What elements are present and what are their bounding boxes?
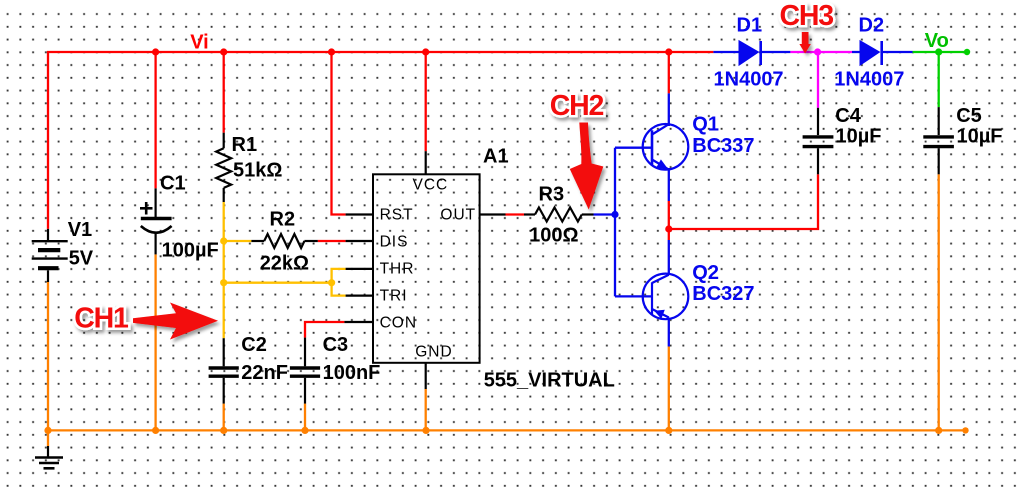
svg-text:1N4007: 1N4007 xyxy=(714,69,784,91)
svg-text:RST: RST xyxy=(380,206,414,223)
svg-text:C5: C5 xyxy=(956,105,982,127)
svg-text:D1: D1 xyxy=(737,15,763,37)
svg-text:CH1: CH1 xyxy=(74,303,129,335)
svg-text:CH2: CH2 xyxy=(550,90,604,122)
svg-text:BC327: BC327 xyxy=(692,283,754,305)
svg-text:D2: D2 xyxy=(859,15,885,37)
svg-text:GND: GND xyxy=(415,343,452,360)
svg-text:V1: V1 xyxy=(68,219,92,241)
svg-text:Q1: Q1 xyxy=(692,114,719,136)
svg-text:R3: R3 xyxy=(539,184,565,206)
svg-text:22nF: 22nF xyxy=(241,362,288,384)
svg-text:555_VIRTUAL: 555_VIRTUAL xyxy=(484,369,615,391)
svg-text:A1: A1 xyxy=(483,146,509,168)
svg-text:100µF: 100µF xyxy=(162,239,219,261)
svg-text:100nF: 100nF xyxy=(323,362,381,384)
svg-text:R2: R2 xyxy=(270,209,296,231)
svg-text:CH3: CH3 xyxy=(780,0,834,32)
svg-text:C1: C1 xyxy=(160,173,186,195)
svg-text:CON: CON xyxy=(380,315,417,332)
svg-text:Q2: Q2 xyxy=(692,262,719,284)
svg-text:C2: C2 xyxy=(241,334,267,356)
svg-text:10µF: 10µF xyxy=(836,125,882,147)
svg-text:C3: C3 xyxy=(323,334,349,356)
svg-text:22kΩ: 22kΩ xyxy=(260,253,309,275)
svg-text:R1: R1 xyxy=(232,134,258,156)
svg-text:100Ω: 100Ω xyxy=(529,225,578,247)
svg-text:51kΩ: 51kΩ xyxy=(233,159,282,181)
svg-text:Vi: Vi xyxy=(190,31,209,53)
svg-text:1N4007: 1N4007 xyxy=(834,69,904,91)
svg-text:OUT: OUT xyxy=(440,206,476,223)
svg-text:TRI: TRI xyxy=(380,288,408,305)
svg-text:THR: THR xyxy=(380,261,415,278)
svg-text:VCC: VCC xyxy=(413,177,449,194)
svg-text:C4: C4 xyxy=(835,105,861,127)
svg-text:DIS: DIS xyxy=(380,233,409,250)
svg-text:5V: 5V xyxy=(69,248,94,270)
svg-text:BC337: BC337 xyxy=(692,135,754,157)
svg-text:Vo: Vo xyxy=(925,30,949,52)
svg-text:10µF: 10µF xyxy=(957,125,1003,147)
